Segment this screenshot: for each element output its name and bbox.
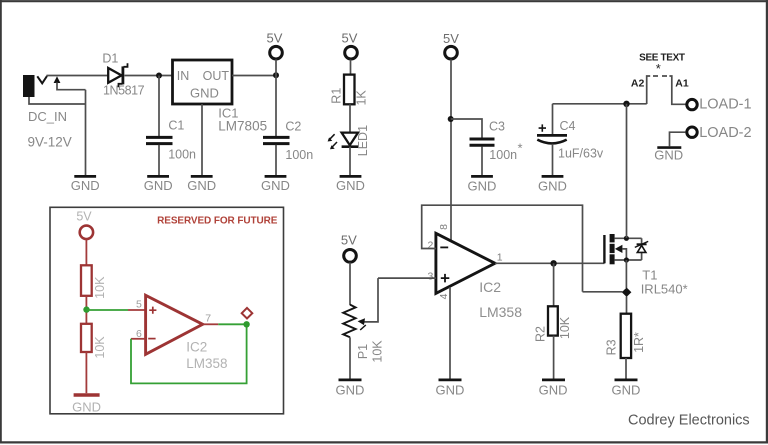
svg-text:GND: GND	[336, 382, 365, 397]
svg-text:IC2: IC2	[186, 339, 207, 354]
junction node drain tap	[623, 101, 629, 107]
svg-text:8: 8	[438, 224, 450, 230]
svg-text:R3: R3	[605, 339, 619, 355]
wiper arrow	[358, 318, 366, 330]
junction node VIN	[156, 73, 162, 79]
svg-text:GND: GND	[436, 382, 465, 397]
svg-text:1R*: 1R*	[632, 332, 646, 353]
resistor 10K upper (reserved)	[81, 265, 107, 299]
wire junction to C3	[451, 119, 482, 138]
wire IC1 OUT to 5V node	[232, 75, 276, 77]
capacitor C4 electrolytic	[537, 119, 604, 175]
svg-text:GND: GND	[72, 400, 101, 415]
svg-text:GND: GND	[261, 178, 290, 193]
wire R3 to ground	[625, 358, 627, 379]
ground GND (C2)	[261, 176, 290, 193]
svg-text:D1: D1	[102, 52, 118, 66]
wire (reserved) tap to pin 5	[87, 309, 146, 311]
wire IC1 GND pin down	[201, 104, 203, 175]
wire jack to ground	[29, 90, 86, 176]
svg-text:10K: 10K	[93, 336, 107, 359]
svg-text:GND: GND	[190, 86, 219, 101]
svg-text:A1: A1	[675, 77, 689, 89]
junction node 5V rail	[273, 72, 279, 78]
resistor R2 10K	[534, 306, 573, 342]
svg-text:1: 1	[497, 252, 503, 264]
svg-text:100n: 100n	[489, 148, 517, 162]
svg-text:LOAD-2: LOAD-2	[699, 125, 751, 141]
op-amp U1 IC2 LM358	[436, 233, 522, 319]
wire IC2 pin 4 to ground	[449, 287, 451, 379]
wire (reserved) 5V to divider	[85, 239, 87, 265]
svg-text:IN: IN	[177, 69, 190, 83]
ground GND (jack)	[71, 176, 100, 193]
jumper A1 stub	[669, 76, 685, 104]
svg-text:IC2: IC2	[479, 279, 501, 295]
capacitor C1	[146, 119, 196, 176]
svg-text:*: *	[656, 61, 661, 76]
supply 5V (reserved)	[76, 210, 93, 239]
svg-text:1K: 1K	[355, 90, 369, 106]
svg-text:RESERVED FOR FUTURE: RESERVED FOR FUTURE	[157, 216, 278, 227]
svg-text:5V: 5V	[443, 31, 459, 46]
wire IC2 output to gate	[495, 262, 605, 264]
svg-text:2: 2	[427, 239, 433, 251]
ground GND (P1)	[336, 380, 365, 398]
transistor T1 IRL540 n-mosfet	[604, 234, 687, 297]
wire load rail horizontal	[553, 103, 647, 105]
wire (reserved) divider to ground	[85, 352, 87, 393]
wire P1 wiper to IC2 pin 3	[363, 278, 436, 322]
svg-text:C4: C4	[560, 119, 576, 133]
wire junction down to C1	[158, 76, 160, 137]
svg-text:LED1: LED1	[356, 125, 370, 156]
svg-text:GND: GND	[71, 178, 100, 193]
wire source down	[625, 260, 627, 288]
ground GND (C1)	[144, 176, 173, 193]
svg-text:LM358: LM358	[479, 304, 522, 320]
resistor 10K lower (reserved)	[81, 324, 107, 359]
svg-text:P1: P1	[356, 344, 370, 359]
svg-text:4: 4	[438, 293, 450, 299]
svg-text:LM7805: LM7805	[218, 119, 267, 134]
wire 5V rail down to IC2 pin 8	[450, 59, 452, 240]
svg-text:1N5817: 1N5817	[103, 83, 145, 97]
wire load rail to C4	[552, 104, 554, 136]
jumper dashed link SEE TEXT	[653, 75, 667, 77]
potentiometer P1 10K	[343, 305, 384, 363]
svg-text:OUT: OUT	[203, 69, 230, 83]
svg-text:5V: 5V	[76, 210, 92, 224]
wire LED1 to ground	[349, 147, 351, 176]
ground GND (LED1)	[336, 176, 365, 193]
svg-text:100n: 100n	[168, 148, 196, 162]
capacitor C2	[263, 120, 313, 176]
svg-text:R1: R1	[330, 88, 344, 104]
svg-text:9V-12V: 9V-12V	[28, 135, 72, 150]
regulator IC1 LM7805	[173, 60, 268, 134]
svg-text:100n: 100n	[285, 148, 313, 162]
ground GND (reserved)	[72, 395, 101, 415]
resistor R3 1R	[605, 314, 646, 358]
wire source to R3	[626, 297, 628, 314]
LED LED1	[328, 125, 370, 156]
resistor R1 1K	[330, 75, 369, 106]
junction node C3 tap	[448, 116, 454, 122]
connector LOAD-2	[687, 125, 752, 141]
svg-text:A2: A2	[631, 77, 645, 89]
svg-text:Codrey Electronics: Codrey Electronics	[628, 413, 750, 429]
ground GND (R2)	[539, 380, 568, 398]
svg-text:GND: GND	[539, 382, 568, 397]
wire (reserved) pin 7 output	[203, 323, 247, 325]
ground GND (IC1)	[187, 176, 216, 193]
wire R2 to ground	[553, 336, 555, 379]
svg-text:IRL540*: IRL540*	[641, 282, 688, 297]
svg-text:GND: GND	[538, 178, 567, 193]
svg-text:LM358: LM358	[186, 356, 227, 371]
wire R1 to LED1	[349, 104, 351, 132]
svg-text:C1: C1	[168, 119, 184, 133]
svg-text:T1: T1	[642, 268, 657, 283]
wire drain to load rail	[626, 104, 628, 238]
wire (reserved) divider middle	[85, 296, 87, 324]
wire jack to D1 anode	[47, 75, 109, 77]
svg-text:GND: GND	[612, 382, 641, 397]
wire P1 to ground	[349, 337, 351, 378]
supply 5V (P1 branch)	[341, 232, 357, 305]
wire feedback from source	[583, 291, 623, 293]
svg-text:GND: GND	[654, 148, 683, 163]
supply 5V (LED branch)	[342, 31, 358, 75]
svg-text:C3: C3	[489, 120, 505, 134]
svg-text:R2: R2	[534, 326, 548, 342]
svg-text:7: 7	[205, 312, 211, 324]
jumper A2 stub	[647, 76, 651, 104]
supply 5V (regulator output)	[267, 31, 283, 76]
wire LOAD-2 to ground	[670, 132, 686, 146]
op-amp IC2 second half (reserved)	[146, 295, 228, 371]
connector LOAD-1	[687, 97, 752, 113]
wire feedback pin 2	[422, 205, 583, 292]
svg-text:SEE TEXT: SEE TEXT	[639, 52, 685, 63]
ground GND (LOAD-2)	[654, 148, 683, 163]
svg-text:*: *	[518, 141, 523, 156]
svg-text:GND: GND	[336, 178, 365, 193]
wire D1 cathode to IC1 IN	[125, 75, 173, 77]
ground GND (C4)	[538, 176, 567, 193]
svg-text:3: 3	[427, 270, 433, 282]
ground GND (IC2 pin4)	[436, 380, 465, 398]
svg-text:GND: GND	[468, 178, 497, 193]
svg-text:GND: GND	[187, 178, 216, 193]
junction node source/feedback (diamond)	[622, 288, 632, 297]
svg-text:5V: 5V	[267, 31, 283, 46]
capacitor C3	[470, 120, 523, 176]
svg-text:10K: 10K	[371, 340, 385, 363]
svg-text:5V: 5V	[342, 31, 358, 46]
wire (reserved) pin 6 feedback	[131, 324, 247, 383]
svg-text:LOAD-1: LOAD-1	[699, 97, 751, 113]
wire R2 from output node	[553, 263, 555, 306]
junction node output/R2	[550, 260, 556, 266]
reserved box outline	[50, 207, 284, 413]
supply 5V (op-amp rail)	[443, 31, 459, 59]
svg-text:1uF/63v: 1uF/63v	[558, 146, 604, 160]
svg-text:5V: 5V	[341, 232, 357, 247]
connector J1 DC_IN barrel jack	[23, 75, 86, 97]
wire 5V node down to C2	[275, 76, 277, 137]
svg-text:C2: C2	[285, 120, 301, 134]
svg-text:5: 5	[136, 299, 142, 311]
ground GND (C3)	[468, 176, 497, 193]
junction node divider tap (green)	[83, 306, 89, 312]
svg-text:DC_IN: DC_IN	[28, 109, 67, 124]
node marker diamond (reserved)	[242, 308, 253, 319]
ground GND (R3)	[612, 380, 641, 398]
svg-text:10K: 10K	[93, 276, 107, 299]
svg-text:GND: GND	[144, 178, 173, 193]
junction node output (green, reserved)	[243, 321, 249, 327]
svg-text:10K: 10K	[558, 316, 572, 339]
diode D1 1N5817 schottky	[102, 52, 144, 98]
